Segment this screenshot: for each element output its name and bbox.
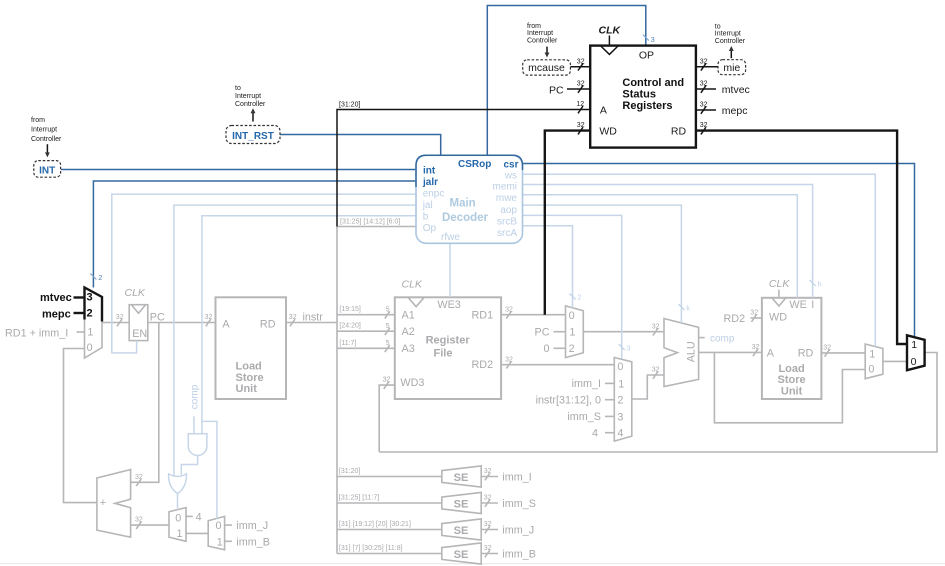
svg-text:A2: A2 — [402, 326, 415, 338]
stub mcause into CSR — [570, 66, 590, 68]
svg-text:1: 1 — [177, 528, 183, 540]
stub PC into srcA mux input 1 — [554, 331, 566, 333]
wire ALU result loop down to result mux input 0 — [714, 352, 865, 422]
svg-text:1: 1 — [869, 349, 875, 361]
stub RD1+imm_I into PCnext mux input 1 — [77, 331, 85, 333]
adder PC+imm (left-facing) — [97, 470, 131, 538]
svg-text:WE3: WE3 — [437, 299, 460, 311]
svg-text:RD: RD — [260, 318, 276, 330]
mux PCnext (4:1) gray lower part — [85, 320, 103, 359]
mux result (2:1 gray) — [865, 344, 883, 379]
wire memi to LSU I — [523, 185, 813, 298]
svg-text:32: 32 — [505, 356, 513, 363]
svg-text:+: + — [100, 497, 106, 509]
wire aop select to ALU — [523, 205, 682, 323]
wire srcA select — [523, 226, 573, 308]
block Load Store Unit (instruction fetch) — [216, 297, 287, 399]
svg-text:int: int — [423, 165, 436, 176]
stub imm_J into mux imm2 input 0 — [225, 524, 232, 526]
svg-text:2: 2 — [617, 395, 623, 407]
svg-text:CSRop: CSRop — [458, 159, 491, 170]
svg-text:Store: Store — [778, 374, 806, 386]
svg-text:CLK: CLK — [769, 278, 790, 290]
svg-text:mepc: mepc — [42, 308, 71, 320]
wire imm mux1 output to adder bottom input — [131, 524, 169, 526]
svg-text:Status: Status — [622, 88, 656, 100]
svg-text:[24:20]: [24:20] — [339, 323, 360, 330]
svg-text:32: 32 — [484, 521, 492, 528]
svg-text:CLK: CLK — [125, 287, 146, 299]
stub RD2 into LSU WD — [751, 317, 762, 319]
svg-text:[31:20]: [31:20] — [339, 468, 360, 475]
svg-text:RD2: RD2 — [724, 313, 746, 325]
svg-text:RD: RD — [671, 126, 687, 138]
svg-text:ALU: ALU — [686, 341, 698, 362]
svg-text:32: 32 — [484, 495, 492, 502]
wire instr[31:20] to CSR A input (black part of instr bus) — [337, 110, 590, 227]
port mie dashed box — [718, 60, 746, 75]
svg-text:mtvec: mtvec — [722, 84, 750, 96]
svg-text:32: 32 — [577, 122, 585, 129]
svg-text:Controller: Controller — [235, 101, 266, 108]
svg-text:0: 0 — [87, 342, 93, 354]
svg-text:k: k — [686, 306, 690, 313]
wire INT to decoder int input — [61, 169, 416, 171]
svg-text:32: 32 — [205, 314, 213, 321]
svg-text:5: 5 — [386, 323, 390, 330]
svg-text:to: to — [715, 23, 721, 30]
wire mwe to LSU WE — [523, 195, 798, 298]
svg-text:RD2: RD2 — [472, 359, 494, 371]
svg-text:h: h — [818, 282, 822, 289]
stub comp output of ALU — [699, 337, 705, 339]
svg-text:imm_I: imm_I — [502, 471, 531, 483]
block Control and Status Registers — [590, 46, 696, 148]
mux srcB (5:1) — [614, 358, 632, 442]
svg-text:INT_RST: INT_RST — [232, 131, 274, 142]
svg-text:enpc: enpc — [423, 189, 445, 200]
svg-text:Load: Load — [778, 363, 804, 375]
stub mepc into PCnext mux input 2 — [74, 312, 85, 314]
svg-text:memi: memi — [493, 182, 517, 193]
wire srcB select — [523, 215, 622, 358]
svg-text:32: 32 — [577, 58, 585, 65]
wire PCnext select (2) from decoder to PC mux — [93, 181, 416, 288]
wire instr: LSU RD output to instr node — [286, 322, 337, 324]
svg-text:from: from — [31, 117, 45, 124]
svg-text:PC: PC — [549, 85, 564, 97]
wire mux imm2 output to mux imm1 input 1 — [186, 532, 208, 534]
stub constant 4 into srcB mux input 4 — [605, 432, 614, 434]
svg-text:mwe: mwe — [496, 193, 518, 204]
block Main Decoder — [416, 155, 523, 243]
wire ws to result mux select — [523, 174, 876, 346]
block Register File — [395, 297, 501, 399]
wire INT_RST from decoder to INT_RST box — [280, 135, 441, 156]
svg-text:0: 0 — [175, 512, 181, 524]
svg-text:File: File — [434, 348, 453, 360]
svg-text:aop: aop — [500, 205, 517, 216]
svg-text:2: 2 — [569, 343, 575, 355]
svg-text:Controller: Controller — [527, 38, 558, 45]
svg-text:imm_J: imm_J — [236, 520, 268, 532]
svg-text:32: 32 — [484, 468, 492, 475]
register PC — [129, 305, 148, 341]
svg-text:A: A — [222, 318, 230, 330]
wire csr from decoder to csr result mux select — [523, 164, 915, 338]
stub comp into AND gate — [193, 416, 195, 434]
svg-text:instr[31:12], 0: instr[31:12], 0 — [536, 394, 601, 406]
svg-text:32: 32 — [383, 377, 391, 384]
svg-text:SE: SE — [454, 525, 469, 537]
mux csr result (2:1 black) — [907, 335, 925, 370]
svg-text:A: A — [767, 347, 775, 359]
stub PC into CSR — [567, 88, 590, 90]
svg-text:A3: A3 — [402, 343, 415, 355]
svg-text:imm_J: imm_J — [502, 524, 534, 536]
wire CSRop from decoder to CSR OP input — [487, 6, 646, 156]
svg-text:OP: OP — [639, 50, 654, 62]
extender SE imm_B — [337, 543, 536, 564]
AND gate branch-taken — [188, 434, 207, 456]
svg-text:Registers: Registers — [622, 100, 672, 112]
svg-text:5: 5 — [386, 340, 390, 347]
wire ALU result to Load Store Unit A — [699, 351, 762, 353]
svg-text:EN: EN — [132, 328, 147, 340]
svg-text:ws: ws — [504, 171, 517, 182]
svg-text:csr: csr — [503, 160, 518, 171]
svg-text:RD: RD — [798, 347, 814, 359]
block Load Store Unit (data memory) — [762, 298, 822, 399]
svg-text:PC: PC — [150, 311, 165, 323]
extender SE imm_S — [337, 492, 536, 513]
svg-text:0: 0 — [868, 363, 874, 375]
svg-text:1: 1 — [87, 327, 93, 339]
stub mtvec out of CSR — [696, 88, 716, 90]
wire result loop: csr mux output right, down, left along bottom, to WD3 riser — [379, 353, 937, 453]
svg-text:2: 2 — [87, 307, 93, 319]
svg-text:CLK: CLK — [599, 25, 622, 37]
svg-text:4: 4 — [196, 511, 202, 523]
svg-text:WD3: WD3 — [400, 377, 424, 389]
stub mie out of CSR — [696, 66, 718, 68]
svg-text:1: 1 — [911, 339, 917, 351]
wire b: decoder to AND gate and imm mux2 select — [202, 216, 416, 434]
svg-text:32: 32 — [135, 474, 143, 481]
wire srcA mux output to ALU input A — [583, 331, 664, 333]
svg-text:srcB: srcB — [497, 216, 517, 227]
svg-text:4: 4 — [617, 428, 623, 440]
wire enpc: decoder to PC register EN — [112, 194, 416, 353]
wire instr opcode fields to Main Decoder Op input — [337, 226, 416, 228]
stub mtvec into PCnext mux input 3 — [74, 296, 85, 298]
svg-text:WD: WD — [769, 311, 787, 323]
svg-text:3: 3 — [651, 37, 655, 44]
stub constant 4 into mux imm1 input 0 — [186, 515, 193, 517]
svg-text:Controller: Controller — [31, 136, 62, 143]
svg-text:jal: jal — [422, 200, 433, 211]
stub mepc out of CSR — [696, 109, 716, 111]
wire PC tap down to adder top input — [131, 323, 159, 483]
mux imm2 (left-pointing, imm_J/imm_B select) — [208, 516, 224, 549]
svg-text:to: to — [235, 85, 241, 92]
faint bottom border — [0, 563, 945, 565]
svg-text:32: 32 — [700, 122, 708, 129]
svg-text:[31] [7] [30:25] [11:8]: [31] [7] [30:25] [11:8] — [339, 545, 403, 552]
svg-text:Decoder: Decoder — [442, 212, 489, 224]
svg-text:imm_B: imm_B — [236, 536, 270, 548]
node PC: PC register output wire to Load Store Unit A — [148, 322, 216, 324]
svg-text:A1: A1 — [402, 309, 415, 321]
svg-text:3: 3 — [617, 411, 623, 423]
svg-text:Unit: Unit — [781, 385, 803, 397]
svg-text:instr: instr — [303, 311, 324, 323]
svg-text:jalr: jalr — [422, 177, 438, 188]
port INT_RST dashed box — [226, 126, 280, 144]
wire CSR RD output to csr mux input 1 — [696, 131, 907, 344]
svg-text:from: from — [527, 23, 541, 30]
svg-text:Store: Store — [236, 372, 264, 384]
stub imm_S into srcB mux input 3 — [605, 415, 614, 417]
svg-text:32: 32 — [823, 345, 831, 352]
svg-text:[19:15]: [19:15] — [339, 306, 360, 313]
wire RD1 tap up to CSR WD — [545, 131, 590, 315]
port INT dashed box — [34, 161, 61, 178]
mux imm1 (left-pointing, 4/imm select) — [169, 508, 186, 542]
svg-text:2: 2 — [98, 275, 102, 282]
svg-text:32: 32 — [505, 306, 513, 313]
svg-text:4: 4 — [592, 427, 598, 439]
svg-text:Interrupt: Interrupt — [715, 31, 741, 38]
svg-text:5: 5 — [386, 306, 390, 313]
svg-text:A: A — [600, 104, 607, 116]
svg-text:1: 1 — [217, 536, 223, 548]
svg-text:0: 0 — [543, 343, 549, 355]
svg-text:RD1 + imm_I: RD1 + imm_I — [5, 328, 68, 340]
svg-text:Interrupt: Interrupt — [31, 126, 57, 133]
svg-text:SE: SE — [454, 472, 469, 484]
svg-text:SE: SE — [454, 498, 469, 510]
svg-text:3: 3 — [87, 292, 93, 304]
svg-text:32: 32 — [700, 58, 708, 65]
svg-text:INT: INT — [39, 166, 55, 177]
svg-text:0: 0 — [911, 356, 917, 368]
svg-text:32: 32 — [652, 367, 660, 374]
node instr vertical distribution bus (gray part) — [336, 227, 338, 554]
svg-text:Register: Register — [426, 335, 471, 347]
svg-text:imm_S: imm_S — [502, 498, 536, 510]
wire srcB mux output to ALU input B — [632, 375, 664, 399]
svg-text:SE: SE — [454, 549, 469, 561]
svg-text:[31:25] [14:12] [6:0]: [31:25] [14:12] [6:0] — [340, 218, 400, 225]
svg-text:1: 1 — [569, 327, 575, 339]
wire instr[24:20] to RF A2 — [337, 330, 395, 332]
svg-text:32: 32 — [577, 81, 585, 88]
svg-text:mcause: mcause — [528, 62, 565, 74]
svg-text:mepc: mepc — [722, 105, 748, 117]
wire adder output up to PCnext mux input 0 — [64, 349, 97, 503]
svg-text:imm_S: imm_S — [567, 411, 601, 423]
stub constant 0 into srcA mux input 2 — [554, 347, 566, 349]
wire WD3 from result loop up into Register File — [379, 385, 395, 452]
svg-text:0: 0 — [216, 520, 222, 532]
bus slash 32 on PC D input — [117, 319, 122, 326]
svg-text:32: 32 — [484, 545, 492, 552]
wire OR output to imm mux1 select — [177, 493, 179, 509]
svg-text:PC: PC — [535, 326, 550, 338]
svg-text:I: I — [811, 299, 814, 311]
wire: PCnext mux output to PC register — [102, 322, 129, 324]
svg-text:32: 32 — [652, 323, 660, 330]
svg-text:Unit: Unit — [236, 383, 258, 395]
stub instr[31:12],0 into srcB mux input 2 — [605, 399, 614, 401]
svg-text:CLK: CLK — [402, 279, 423, 291]
svg-text:Controller: Controller — [715, 38, 746, 45]
svg-text:comp: comp — [189, 384, 200, 409]
svg-text:32: 32 — [116, 314, 124, 321]
svg-text:RD1: RD1 — [472, 309, 494, 321]
svg-text:rfwe: rfwe — [441, 232, 460, 243]
stub imm_B into mux imm2 input 1 — [225, 540, 232, 542]
svg-text:0: 0 — [617, 361, 623, 373]
svg-text:32: 32 — [752, 344, 760, 351]
extender SE imm_J — [337, 519, 534, 540]
svg-text:Interrupt: Interrupt — [235, 93, 261, 100]
decoder dark top border — [416, 155, 523, 187]
svg-text:imm_B: imm_B — [502, 548, 536, 560]
mux srcA (3:1) — [566, 306, 584, 358]
svg-text:3: 3 — [627, 346, 631, 353]
svg-text:Op: Op — [423, 223, 437, 234]
svg-text:mie: mie — [723, 62, 740, 74]
svg-text:2: 2 — [578, 295, 582, 302]
svg-text:WE: WE — [789, 299, 806, 311]
svg-text:Control and: Control and — [622, 77, 684, 89]
svg-text:Interrupt: Interrupt — [527, 30, 553, 37]
svg-text:[31:25] [11:7]: [31:25] [11:7] — [339, 495, 379, 502]
wire RD1 to srcA mux input 0 — [501, 314, 565, 316]
wire AND output to OR gate — [181, 456, 197, 475]
extender SE imm_I — [337, 466, 532, 487]
svg-text:WD: WD — [599, 126, 617, 138]
mux PCnext black upper part — [85, 288, 103, 322]
svg-text:imm_I: imm_I — [572, 378, 601, 390]
wire instr[11:7] to RF A3 — [337, 347, 395, 349]
svg-text:32: 32 — [700, 81, 708, 88]
svg-text:1: 1 — [618, 378, 624, 390]
svg-text:32: 32 — [135, 517, 143, 524]
svg-text:Main: Main — [450, 197, 476, 209]
svg-text:[31] [19:12] [20] [30:21]: [31] [19:12] [20] [30:21] — [339, 521, 411, 528]
wire jal: decoder to OR gate — [174, 205, 416, 476]
wire instr[19:15] to RF A1 — [337, 314, 395, 316]
svg-text:32: 32 — [289, 314, 297, 321]
port mcause dashed box — [523, 60, 571, 75]
svg-text:32: 32 — [750, 310, 758, 317]
stub imm_I into srcB mux input 1 — [605, 382, 614, 384]
svg-text:32: 32 — [700, 102, 708, 109]
svg-text:comp: comp — [710, 333, 735, 344]
wire LSU RD output to result mux input 1 — [821, 352, 865, 354]
wire rfwe: decoder to Register File WE3 — [449, 243, 451, 297]
OR gate jump/branch — [169, 474, 187, 494]
svg-text:[31:20]: [31:20] — [339, 101, 360, 108]
svg-text:mtvec: mtvec — [40, 292, 72, 304]
svg-text:[11:7]: [11:7] — [339, 340, 356, 347]
op-amp style ALU — [664, 319, 699, 387]
svg-text:b: b — [423, 212, 429, 223]
wire RD2 to srcB mux input 0 — [501, 364, 614, 366]
svg-text:srcA: srcA — [497, 228, 517, 239]
wire result mux output to csr mux input 0 — [883, 360, 907, 362]
svg-text:Load: Load — [236, 361, 262, 373]
svg-text:0: 0 — [569, 310, 575, 322]
svg-text:12: 12 — [576, 101, 584, 108]
